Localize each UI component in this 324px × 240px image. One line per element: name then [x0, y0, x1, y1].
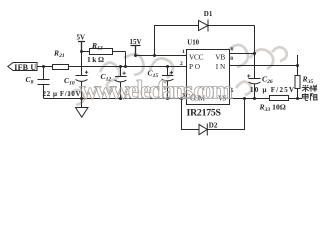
node D2 anode branch / ground junction — [180, 97, 183, 100]
node VS / C26 junction — [253, 97, 256, 100]
node junction at C8 — [42, 65, 45, 68]
svg-text:6: 6 — [231, 47, 234, 53]
wire VS row — [230, 98, 303, 100]
svg-text:VCC: VCC — [189, 53, 204, 62]
svg-text:15V: 15V — [130, 38, 142, 46]
svg-text:5V: 5V — [77, 34, 86, 42]
wire IN pin — [230, 65, 298, 67]
svg-text:PO: PO — [189, 62, 200, 71]
node C15 / ground junction — [166, 97, 169, 100]
svg-text:5: 5 — [231, 88, 234, 94]
ground symbol — [76, 99, 89, 118]
svg-text:U10: U10 — [187, 39, 199, 46]
capacitor C12 — [115, 67, 127, 99]
svg-text:IR2175S: IR2175S — [187, 108, 222, 119]
diode D1 — [199, 20, 209, 32]
svg-text:VB: VB — [215, 53, 225, 62]
wire 15V rail segment B to VCC — [136, 55, 187, 57]
wire VB pin — [230, 53, 255, 55]
power 5V — [78, 42, 85, 52]
IC pin names — [189, 53, 227, 103]
input flag IFB U — [8, 63, 37, 71]
node C10 / ground junction — [80, 97, 83, 100]
node C15 / PO junction — [166, 65, 169, 68]
node IN / R35 junction — [296, 64, 299, 67]
node 5V / C10 junction — [80, 50, 83, 53]
power 15V — [131, 46, 141, 56]
wire 5V rail segment A — [82, 51, 126, 53]
wire VB node down to C26 — [254, 26, 256, 79]
node R33 / R35 junction — [296, 97, 299, 100]
resistor R35 sampling — [297, 55, 299, 99]
node R13 pull-up / PO junction — [124, 65, 127, 68]
node VB / D1 cathode junction — [253, 52, 256, 55]
svg-text:8: 8 — [230, 56, 233, 62]
IC U10 box — [187, 50, 230, 105]
watermark script swirls — [68, 45, 287, 105]
text zu (resistance) — [311, 94, 318, 101]
pin numbers — [180, 47, 234, 99]
svg-text:www.elecfans.com: www.elecfans.com — [80, 76, 234, 105]
svg-text:1kΩ: 1kΩ — [87, 55, 104, 64]
capacitor C10 — [76, 52, 88, 99]
ground rail — [44, 98, 187, 100]
svg-text:C8: C8 — [26, 75, 34, 86]
svg-text:D2: D2 — [209, 122, 218, 130]
svg-text:IFB U: IFB U — [14, 63, 36, 72]
capacitor C8 — [38, 67, 50, 99]
resistor R13 — [90, 49, 113, 55]
svg-text:R3310Ω: R3310Ω — [259, 103, 286, 114]
capacitor C15 — [162, 67, 174, 99]
svg-text:C10: C10 — [64, 76, 75, 87]
svg-text:R13: R13 — [91, 41, 103, 52]
svg-text:1: 1 — [182, 49, 185, 55]
capacitor C26 — [249, 79, 261, 99]
svg-text:IN: IN — [216, 62, 226, 71]
node D1 anode / VCC junction — [153, 54, 156, 57]
svg-text:D1: D1 — [204, 10, 213, 18]
wire flag to R21 — [37, 66, 53, 68]
diode D2 — [199, 124, 207, 136]
node C12 / ground junction — [119, 97, 122, 100]
svg-text:22 μ F/10V: 22 μ F/10V — [43, 90, 81, 98]
resistor R21 — [53, 65, 69, 70]
label sampling resistor (CJK drawn) — [302, 85, 318, 101]
svg-text:R35: R35 — [302, 75, 314, 86]
wire R13 drop to PO net — [125, 52, 127, 67]
text cai (sampling) — [302, 85, 309, 92]
svg-text:R21: R21 — [53, 49, 65, 60]
wire R21 to IC pin PO — [69, 66, 187, 68]
wire D2 branch — [182, 99, 245, 130]
text dian (electric) — [302, 93, 308, 100]
svg-text:10 μ F/25V: 10 μ F/25V — [250, 86, 294, 94]
svg-text:C26: C26 — [262, 74, 273, 85]
node VS / D2 cathode junction — [243, 97, 246, 100]
node 15V / VCC junction — [134, 54, 137, 57]
svg-text:3: 3 — [182, 93, 185, 99]
text yang — [309, 85, 317, 92]
resistor R33 — [270, 96, 289, 101]
node C12 / PO junction — [119, 65, 122, 68]
svg-text:2: 2 — [180, 61, 183, 67]
wire D1 riser and top wire — [155, 26, 255, 56]
